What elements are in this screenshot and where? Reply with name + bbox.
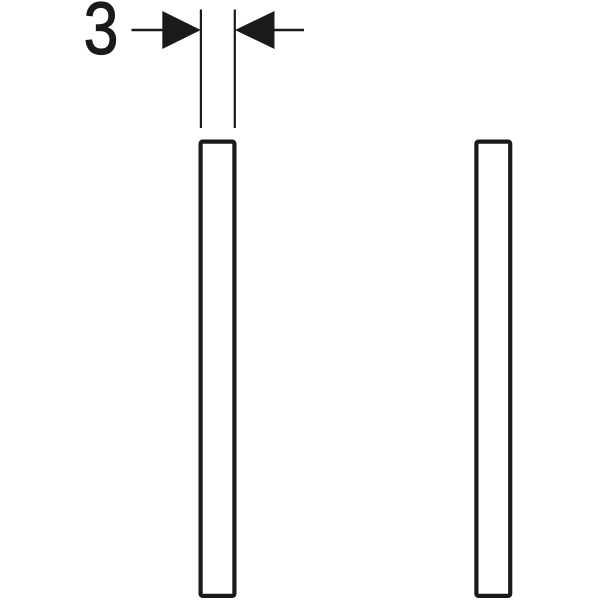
svg-text:3: 3 [84, 0, 119, 70]
